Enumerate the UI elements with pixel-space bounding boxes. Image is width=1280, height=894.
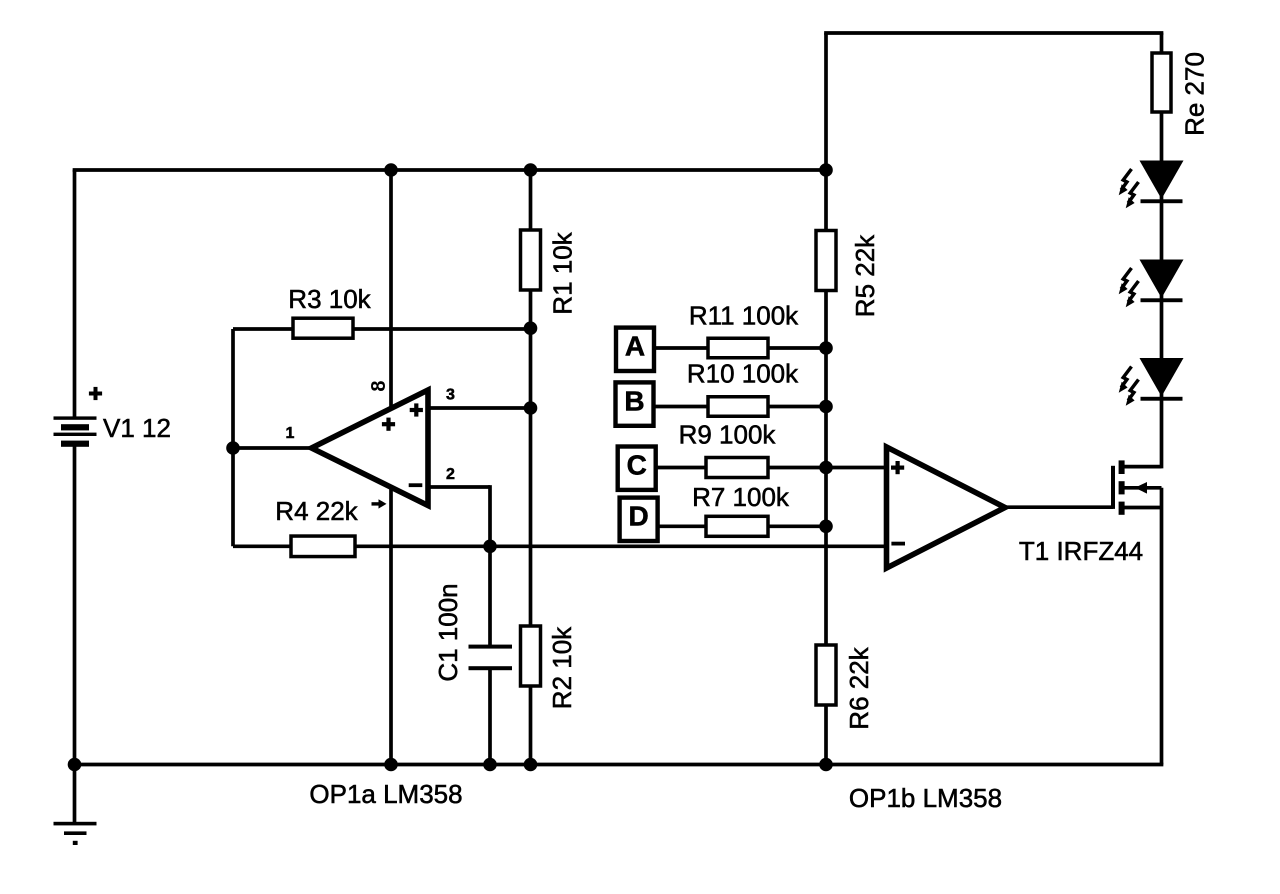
svg-text:R9 100k: R9 100k [679, 420, 777, 450]
svg-text:R3 10k: R3 10k [288, 284, 371, 314]
svg-text:R4 22k: R4 22k [275, 496, 358, 526]
svg-text:R1 10k: R1 10k [548, 231, 578, 314]
svg-text:D: D [628, 501, 648, 532]
svg-text:R2 10k: R2 10k [547, 626, 577, 709]
svg-text:R10 100k: R10 100k [687, 359, 799, 389]
svg-text:R7 100k: R7 100k [692, 482, 790, 512]
svg-text:R11 100k: R11 100k [689, 301, 799, 331]
svg-text:A: A [625, 331, 645, 362]
svg-text:V1 12: V1 12 [103, 413, 171, 443]
svg-text:1: 1 [286, 425, 295, 442]
svg-text:C1 100n: C1 100n [433, 583, 463, 681]
svg-text:R5 22k: R5 22k [850, 234, 880, 317]
svg-text:Re 270: Re 270 [1180, 52, 1210, 136]
svg-text:2: 2 [446, 466, 455, 483]
svg-text:B: B [624, 385, 644, 416]
svg-text:OP1b LM358: OP1b LM358 [849, 783, 1002, 813]
svg-text:8: 8 [368, 380, 390, 391]
svg-text:T1 IRFZ44: T1 IRFZ44 [1019, 536, 1143, 566]
svg-text:OP1a LM358: OP1a LM358 [309, 779, 462, 809]
svg-text:3: 3 [446, 387, 455, 404]
svg-text:C: C [627, 450, 647, 481]
svg-text:R6 22k: R6 22k [844, 646, 874, 729]
